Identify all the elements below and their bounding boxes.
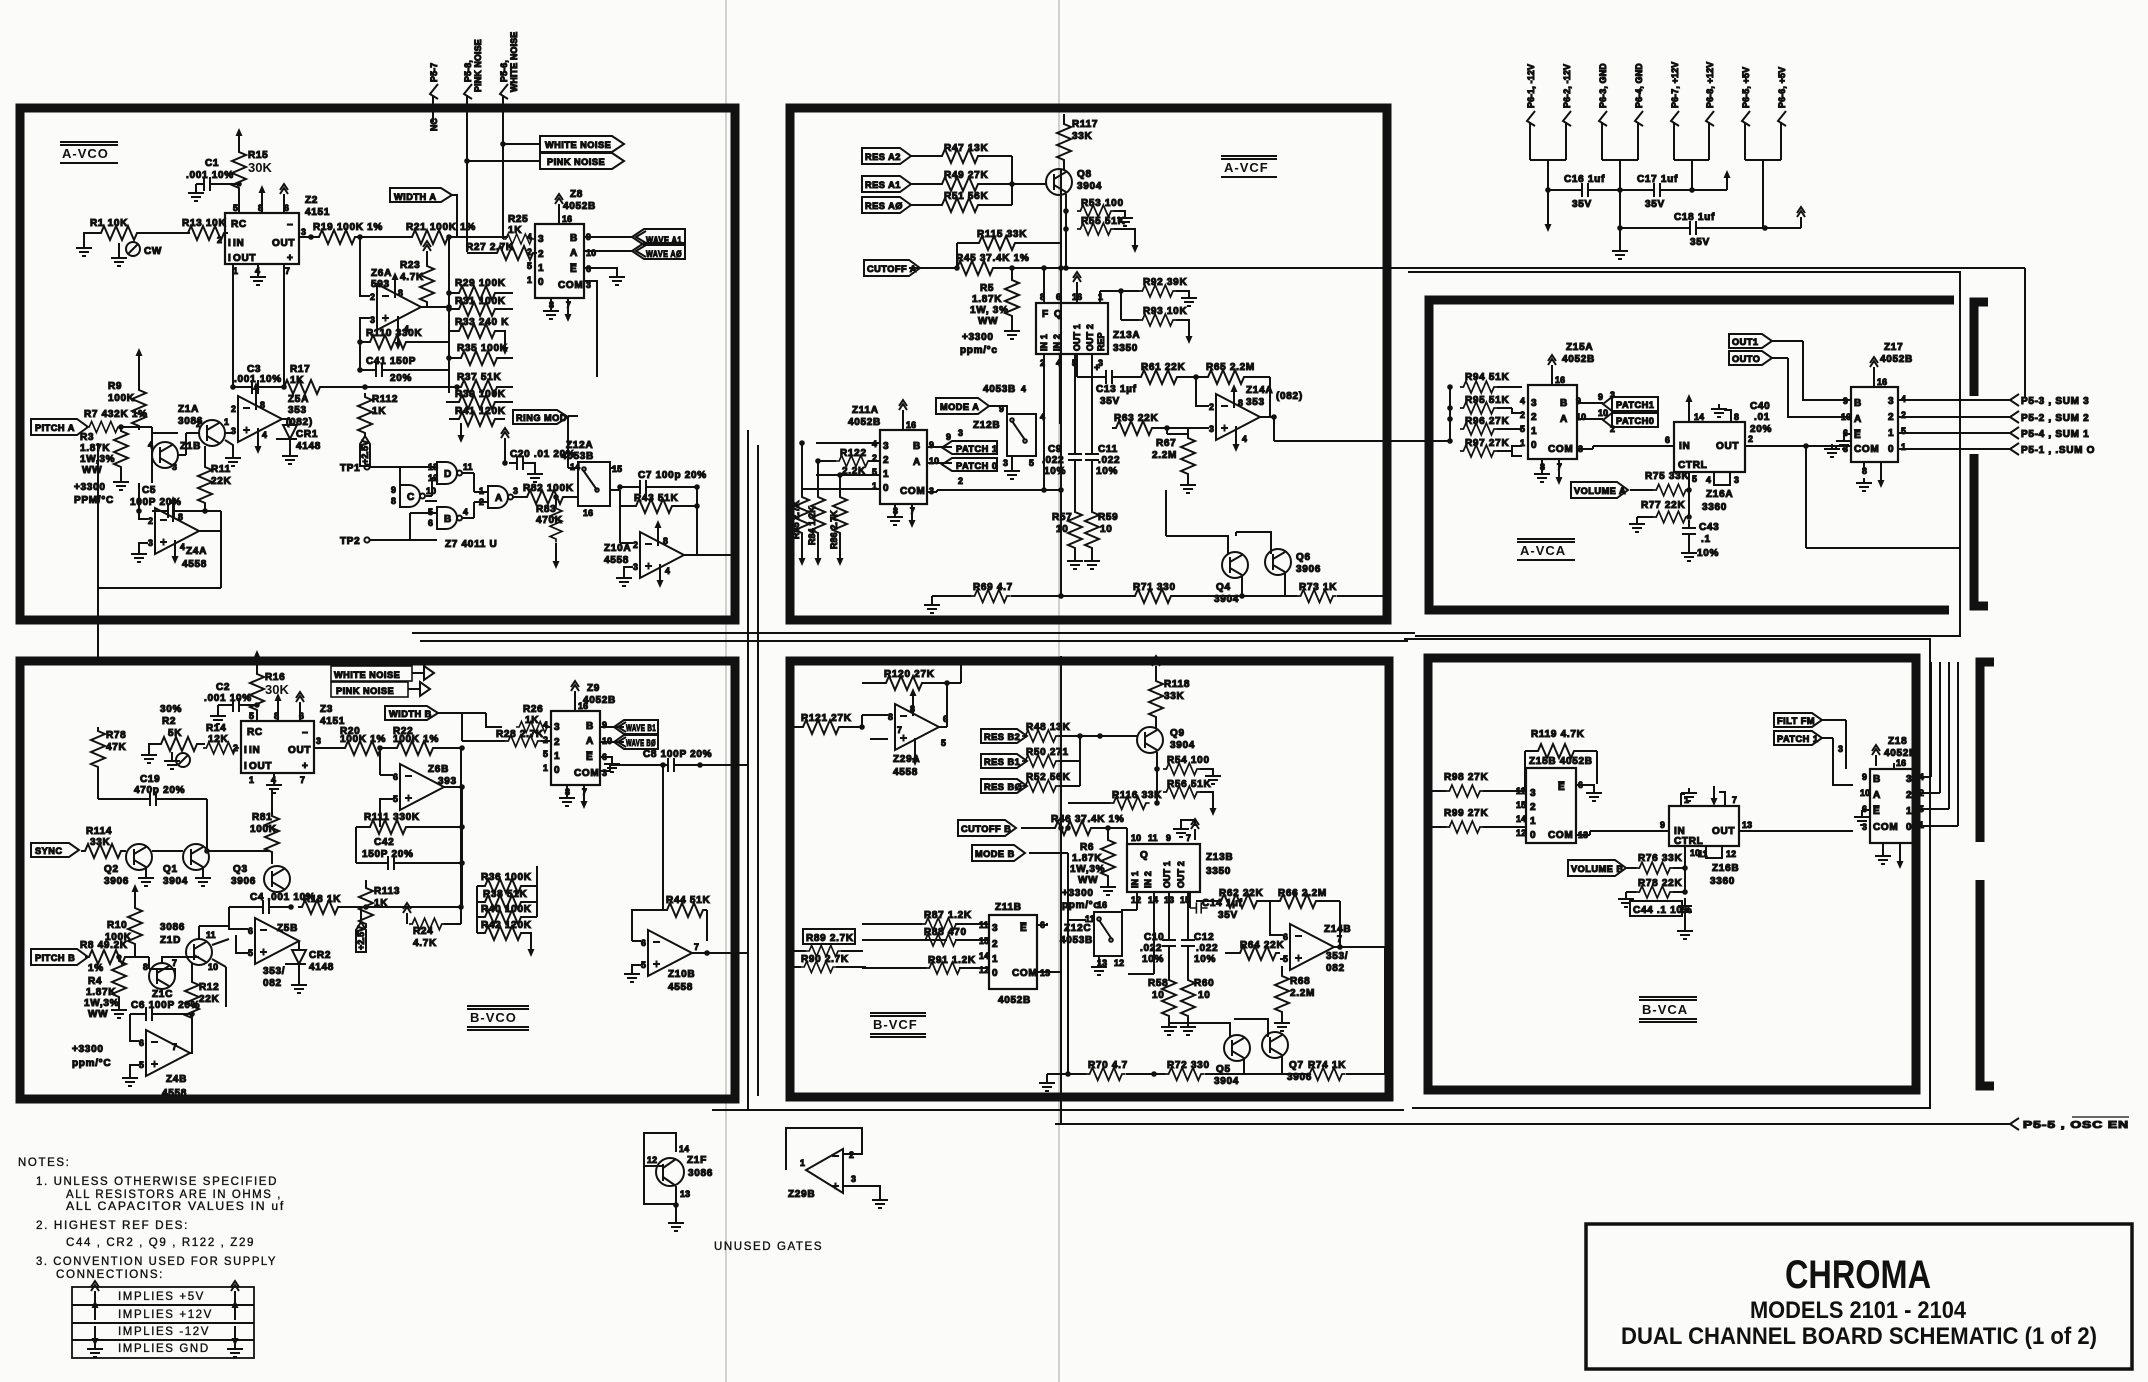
svg-text:3086: 3086 [160,922,185,933]
svg-text:Z10A: Z10A [604,543,631,554]
svg-text:3350: 3350 [1206,866,1231,877]
svg-text:R59: R59 [1098,512,1118,523]
svg-text:4052B: 4052B [1562,354,1595,365]
svg-text:1K: 1K [508,225,522,236]
wire P5-6 white noise [502,95,504,239]
IC Z13B 3350 [1127,844,1200,892]
svg-text:R68: R68 [1290,976,1310,987]
svg-text:22K: 22K [199,994,220,1005]
svg-text:3: 3 [1906,774,1912,785]
svg-text:8: 8 [1734,412,1739,422]
svg-text:B: B [1873,774,1881,785]
svg-text:P6-8, +12V: P6-8, +12V [1705,62,1715,108]
capacitor C43 .1 10% [1682,520,1696,542]
svg-text:R23: R23 [400,260,420,271]
section title B-VCO [467,1006,529,1030]
svg-text:Z7 4011 U: Z7 4011 U [445,539,497,550]
wire vertical channel between VCO and VCF columns [748,430,758,1110]
svg-text:WIDTH A: WIDTH A [394,192,436,202]
svg-text:Q1: Q1 [163,864,178,875]
svg-text:3350: 3350 [1113,343,1138,354]
svg-text:1: 1 [1530,816,1536,827]
svg-text:11: 11 [1698,849,1708,859]
switch Z12A 4053B [578,462,610,506]
svg-text:R112: R112 [372,394,398,405]
wires Z17 outputs to P5 [1898,400,2010,449]
svg-text:R51 56K: R51 56K [944,191,988,202]
svg-text:R21 100K 1%: R21 100K 1% [406,222,476,233]
svg-text:5: 5 [527,261,532,271]
resistor R113 1K [359,884,373,928]
svg-text:B: B [586,721,594,732]
svg-text:3: 3 [172,462,177,472]
svg-text:IMPLIES -12V: IMPLIES -12V [118,1326,210,1338]
svg-text:10: 10 [208,962,218,972]
svg-text:R14: R14 [206,723,226,734]
svg-text:30K: 30K [265,682,289,697]
resistor R68 2.2M [1275,972,1289,1016]
svg-text:Z8: Z8 [570,189,583,200]
svg-text:082: 082 [1326,963,1345,974]
net label OUT1 [1729,334,1772,348]
svg-text:2: 2 [1888,412,1894,423]
svg-text:3: 3 [602,768,607,778]
svg-text:4052B: 4052B [848,417,881,428]
svg-text:P6-1, -12V: P6-1, -12V [1526,64,1536,108]
svg-text:2: 2 [958,476,963,486]
+5V hat [1797,207,1805,228]
svg-text:470K: 470K [536,515,563,526]
ground Z1F [668,1218,684,1231]
ground pin8 Z8 + arrow pin7 [551,298,568,306]
op-amp Z29B unused [786,1128,862,1170]
net label WIDTH B [385,706,438,720]
svg-text:9: 9 [1660,820,1665,830]
net label PITCH A [31,419,88,435]
svg-text:RES A2: RES A2 [865,152,901,162]
svg-text:Z2: Z2 [305,195,318,206]
svg-text:3: 3 [992,923,998,934]
svg-text:4558: 4558 [604,555,629,566]
svg-text:B: B [570,233,578,244]
svg-text:3: 3 [1530,788,1536,799]
svg-text:R1 10K: R1 10K [90,218,128,229]
svg-text:PATCH 0: PATCH 0 [956,461,997,471]
svg-text:R77 22K: R77 22K [1641,500,1685,511]
svg-text:R99 27K: R99 27K [1444,808,1488,819]
gate wires [400,467,488,540]
svg-text:C16 1uf: C16 1uf [1564,174,1605,185]
connector P5-4 SUM 1 [2010,427,2019,439]
svg-text:6: 6 [393,772,398,782]
net label PINK NOISE [540,153,624,169]
svg-text:A: A [495,493,503,504]
svg-text:R10: R10 [107,920,127,931]
svg-text:VOLUME B: VOLUME B [1571,864,1624,874]
svg-text:Z5A: Z5A [288,394,309,405]
svg-text:B-VCA: B-VCA [1642,1002,1688,1017]
svg-text:R122: R122 [840,448,867,459]
svg-text:−: − [302,728,309,739]
svg-text:OUT1: OUT1 [1732,337,1759,347]
svg-text:C5: C5 [142,485,156,496]
transistors Q4 Q6 [1222,552,1248,578]
ground pin4 Z2 [257,264,259,272]
svg-text:4: 4 [1021,384,1026,394]
svg-text:P5-8,: P5-8, [463,60,473,82]
svg-text:COM: COM [1548,444,1573,455]
svg-text:1: 1 [883,469,889,480]
svg-text:1: 1 [543,763,548,773]
svg-text:IN 1: IN 1 [1039,334,1049,351]
svg-text:3906: 3906 [231,876,256,887]
svg-text:Q8: Q8 [1077,169,1092,180]
svg-text:P5-6,: P5-6, [499,60,509,82]
svg-text:A-VCO: A-VCO [62,146,109,161]
svg-text:.022: .022 [1140,943,1162,954]
transistor Z1C [149,963,175,989]
svg-text:Z13A: Z13A [1113,330,1140,341]
connector P5-3 SUM 3 [2010,394,2019,406]
svg-text:I OUT: I OUT [228,253,256,264]
svg-text:Z1C: Z1C [152,989,173,1000]
svg-text:Q5: Q5 [1216,1064,1231,1075]
svg-text:D: D [444,469,452,480]
svg-text:5: 5 [393,794,398,804]
capacitors C9 C11 .022 [1075,354,1092,446]
svg-text:8: 8 [398,288,403,298]
svg-text:1%: 1% [88,963,104,974]
resistor R11 22K [198,463,212,507]
svg-text:082: 082 [263,978,282,989]
capacitor C20 .01 20% [501,428,509,449]
pin4-3 stub box [1714,472,1730,485]
svg-text:Z15A: Z15A [1566,342,1593,353]
svg-text:1.87K: 1.87K [1072,853,1102,864]
resistor R38 51K [481,895,525,909]
svg-text:2.2M: 2.2M [1290,988,1315,999]
gate A [488,486,513,508]
svg-text:OUT 2: OUT 2 [1085,324,1095,351]
A-VCA right bracket [1974,302,1988,606]
svg-text:Z14B: Z14B [1324,924,1351,935]
svg-text:1K: 1K [290,375,304,386]
svg-text:C42: C42 [374,837,394,848]
IC Z8 4052B [535,224,584,298]
svg-text:I OUT: I OUT [244,761,272,772]
svg-text:7: 7 [300,775,305,785]
svg-text:1: 1 [992,954,998,965]
svg-text:PITCH A: PITCH A [35,423,75,433]
svg-text:R64 22K: R64 22K [1240,940,1284,951]
switch Z12C 4053B [1094,912,1122,956]
svg-text:R5: R5 [980,283,994,294]
svg-text:4: 4 [1242,434,1247,444]
svg-text:Z16B: Z16B [1712,863,1739,874]
svg-text:14: 14 [979,951,989,961]
net label PATCHO [1577,418,1603,420]
svg-text:3: 3 [148,538,153,548]
svg-text:A-VCA: A-VCA [1520,543,1566,558]
svg-text:R86 2.7K: R86 2.7K [829,510,839,549]
svg-text:9: 9 [602,720,607,730]
resistor R4 1.87K vertical [112,957,126,1001]
svg-text:3: 3 [1209,424,1214,434]
wire Z16B out [1739,830,1853,832]
svg-text:RES A1: RES A1 [865,180,901,190]
svg-text:WAVE B1: WAVE B1 [626,723,656,733]
svg-text:PATCH 1: PATCH 1 [956,444,997,454]
svg-text:1: 1 [1901,442,1906,452]
resistor R39 100K [455,395,499,409]
-12V drop arrow [1547,190,1549,212]
svg-text:MODE A: MODE A [940,402,979,412]
svg-text:4: 4 [463,507,468,517]
svg-text:4052B: 4052B [1880,354,1913,365]
svg-text:R9: R9 [108,381,122,392]
svg-text:F: F [1042,309,1049,320]
svg-text:R58: R58 [1148,978,1168,989]
svg-text:2: 2 [196,419,201,429]
wire pin7 Z2 down [283,264,285,387]
svg-text:1.87K: 1.87K [972,294,1002,305]
capacitor C44 .1 10% [1630,901,1682,916]
svg-text:.001 10%: .001 10% [204,693,252,704]
IC Z16A 3360 [1674,422,1745,472]
svg-text:R72 330: R72 330 [1167,1060,1210,1071]
resistor R3 1.87K vertical [114,427,128,471]
ground pin6 E [584,268,617,272]
svg-text:Z1B: Z1B [180,441,201,452]
svg-text:5: 5 [139,1060,144,1070]
svg-text:3: 3 [316,736,321,746]
svg-text:14: 14 [1694,412,1704,422]
wire Q1-Q2 row [152,850,269,852]
svg-text:R121 27K: R121 27K [801,713,852,724]
svg-text:Q4: Q4 [1216,582,1231,593]
svg-text:2: 2 [527,247,532,257]
section title B-VCF [870,1013,926,1037]
svg-text:0: 0 [554,765,560,776]
IC Z11A 4052B [880,430,927,504]
svg-text:12: 12 [1726,849,1736,859]
resistor R40 100K [481,910,525,924]
svg-text:10: 10 [929,456,939,466]
wire horizontal pair in gap below A row [412,633,1415,641]
svg-text:R27 2.7K: R27 2.7K [466,242,514,253]
svg-text:Z18: Z18 [1888,736,1907,747]
capacitor C5 100P 20% [160,504,182,518]
svg-text:6: 6 [1665,435,1670,445]
svg-text:+3300: +3300 [962,332,994,343]
svg-text:WAVE AØ: WAVE AØ [646,249,682,259]
svg-text:9: 9 [1598,392,1603,402]
svg-text:Z11A: Z11A [852,405,879,416]
svg-text:2: 2 [1531,412,1537,423]
svg-text:R119 4.7K: R119 4.7K [1531,729,1585,740]
svg-text:R117: R117 [1072,119,1098,130]
svg-text:10: 10 [1100,524,1113,535]
resistor R5 1.87K WW [1005,276,1019,320]
svg-text:B: B [444,514,452,525]
svg-text:C1: C1 [205,158,219,169]
svg-text:12: 12 [647,1155,657,1165]
resistors R58 10 R60 10 [1162,976,1176,1020]
svg-text:9: 9 [999,404,1004,414]
svg-text:+: + [1094,363,1101,374]
wire Z15A COM out [1577,446,1674,449]
svg-text:ALL RESISTORS ARE IN OHMS ,: ALL RESISTORS ARE IN OHMS , [66,1189,282,1201]
resistor R20 100K 1% [341,741,385,755]
svg-text:OUT: OUT [288,745,311,756]
svg-text:10: 10 [1841,412,1851,422]
svg-text:11: 11 [463,462,473,472]
resistor R15 30K [236,128,243,148]
svg-text:COM: COM [1873,822,1898,833]
svg-text:3: 3 [231,426,236,436]
diode CR2 4148 [298,941,300,950]
svg-text:R47 13K: R47 13K [944,143,988,154]
svg-text:R57: R57 [1052,512,1072,523]
svg-text:5: 5 [248,948,253,958]
svg-text:Z11B: Z11B [995,902,1022,913]
svg-text:E̅: E̅ [1854,429,1861,441]
bus to Q8 [1012,156,1047,205]
svg-text:100K: 100K [108,393,135,404]
svg-text:P6-2, -12V: P6-2, -12V [1562,64,1572,108]
svg-text:9: 9 [1166,833,1171,843]
svg-text:13: 13 [1742,820,1752,830]
svg-text:CR1: CR1 [296,429,318,440]
svg-text:0: 0 [883,483,889,494]
svg-text:P5-5 , OSC EN: P5-5 , OSC EN [2023,1120,2129,1131]
svg-text:R89 2.7K: R89 2.7K [806,933,854,944]
svg-text:WW: WW [1078,875,1098,886]
svg-text:11: 11 [1085,914,1095,924]
net label PITCH B [31,949,88,965]
svg-text:2: 2 [849,1150,854,1160]
svg-text:3904: 3904 [1170,740,1195,751]
svg-text:RC: RC [231,219,247,230]
svg-text:Z15B 4052B: Z15B 4052B [1529,756,1593,767]
svg-text:3: 3 [554,722,560,733]
svg-text:35V: 35V [1690,237,1710,248]
resistor R111 330K [366,820,410,834]
svg-text:10%: 10% [1096,466,1118,477]
svg-text:R11: R11 [211,464,231,475]
long vertical [1067,912,1069,1074]
node white noise [500,141,506,147]
svg-text:8: 8 [260,400,265,410]
svg-text:Z16A: Z16A [1706,489,1733,500]
svg-text:Q2: Q2 [104,864,119,875]
resistor R83 470K [553,494,559,500]
svg-text:P6-4, GND: P6-4, GND [1634,63,1644,108]
gnd drop [1619,190,1621,246]
svg-text:4052B: 4052B [583,695,616,706]
gate C [400,485,425,507]
svg-text:R83: R83 [536,504,556,515]
net label RES A2 [862,148,911,164]
svg-text:353: 353 [288,405,307,416]
svg-text:16: 16 [562,214,572,224]
svg-text:C13 1µf: C13 1µf [1096,384,1137,395]
svg-text:.001 10%: .001 10% [186,170,234,181]
net label PATCH 1 [1774,731,1822,745]
svg-text:1: 1 [1906,806,1912,817]
svg-text:R84 1.2K: R84 1.2K [807,506,817,545]
resistor R24 4.7K [403,903,411,924]
svg-text:2: 2 [1209,402,1214,412]
op-amp Z10A 4558 [640,532,684,578]
svg-text:1: 1 [1888,428,1894,439]
wire Z2 out [299,236,315,238]
svg-text:IN 2: IN 2 [1143,871,1153,888]
svg-text:R26: R26 [523,704,543,715]
resistor R22 100K 1% [393,741,437,755]
svg-text:R35 100K: R35 100K [457,343,508,354]
svg-text:R17: R17 [290,364,310,375]
IC Z15A 4052B [1528,385,1577,459]
svg-text:4558: 4558 [162,1088,187,1099]
transistor Q9 3904 [1137,727,1163,753]
net label RES B1 [981,754,1027,768]
svg-text:3: 3 [1888,396,1894,407]
svg-text:C2: C2 [216,682,230,693]
svg-text:Z6B: Z6B [428,764,449,775]
net label CUTOFF A [864,260,920,276]
svg-text:A: A [570,248,578,259]
svg-text:593: 593 [371,279,390,290]
wire thin frame around A-VCA [1408,272,1960,636]
B-VCA right bracket [1980,662,1994,1086]
svg-text:P5-4 , SUM 1: P5-4 , SUM 1 [2021,429,2089,440]
net label RING MOD [513,410,568,424]
svg-text:15: 15 [1516,800,1526,810]
svg-text:Z12B: Z12B [973,420,1000,431]
svg-text:1: 1 [527,275,532,285]
svg-text:I IN: I IN [228,238,244,249]
svg-text:16: 16 [1555,375,1565,385]
capacitor C7 100p 20% [617,484,623,490]
svg-text:12: 12 [1114,958,1124,968]
op-amp Z10B 4558 [648,930,692,976]
transistor Q3 3906 [264,866,290,892]
transistor Z1F 3086 unused [644,1133,676,1205]
svg-text:A: A [1560,414,1568,425]
svg-text:(082): (082) [1276,391,1303,402]
op-amp Z6B 393 [400,764,444,810]
svg-text:7: 7 [1337,934,1342,944]
svg-text:R111 330K: R111 330K [364,812,420,823]
svg-text:OUT: OUT [1712,826,1735,837]
+12V arrow [1724,170,1731,190]
svg-text:Z13B: Z13B [1206,852,1233,863]
svg-text:30%: 30% [160,704,182,715]
svg-text:1W, 3%: 1W, 3% [970,305,1009,316]
svg-text:Z10B: Z10B [668,969,695,980]
connector pins P6 [1530,122,1781,228]
wire left column down [97,443,99,588]
net label OUTO [1729,351,1772,365]
capacitor C19 470p 20% [142,792,164,806]
svg-text:2: 2 [1748,434,1753,444]
svg-text:P6-5, +5V: P6-5, +5V [1741,67,1751,108]
svg-text:C7 100p 20%: C7 100p 20% [638,470,707,481]
svg-text:R61 22K: R61 22K [1141,362,1185,373]
resistor R6 1.87K WW [1101,836,1115,880]
svg-text:WW: WW [88,1009,108,1020]
